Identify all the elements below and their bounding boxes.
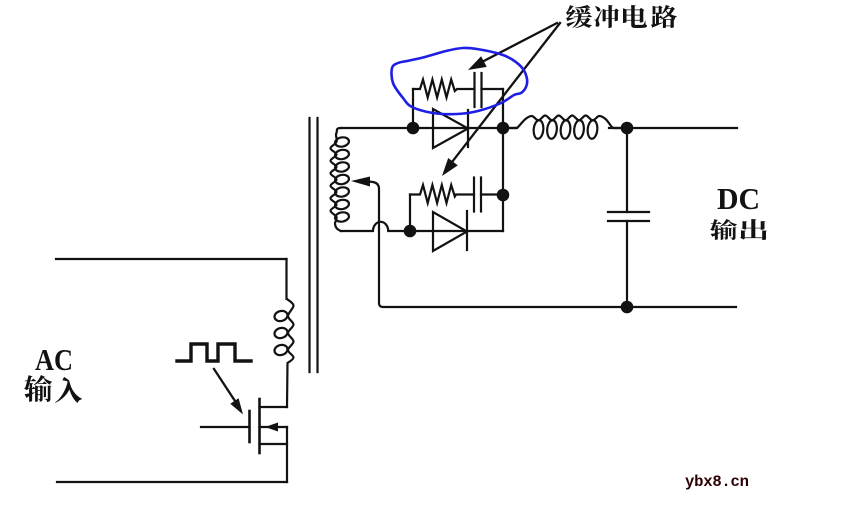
svg-text:ybx8.cn: ybx8.cn <box>685 473 749 491</box>
svg-text:DC: DC <box>717 181 760 216</box>
svg-text:AC: AC <box>35 342 73 377</box>
